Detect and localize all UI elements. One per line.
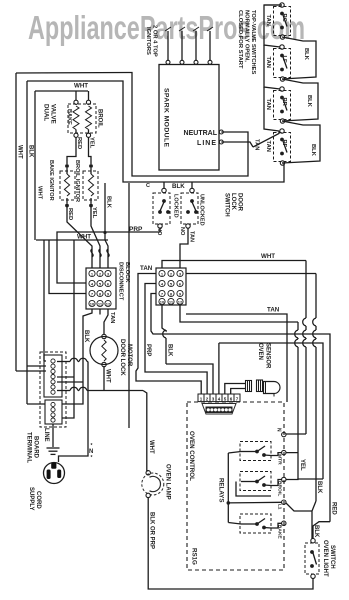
wire WHT long to right: [162, 261, 306, 269]
svg-text:NEUTRAL: NEUTRAL: [184, 130, 218, 137]
svg-text:UNLOCKED: UNLOCKED: [199, 194, 205, 226]
svg-text:NORMALLY OPEN,: NORMALLY OPEN,: [244, 10, 250, 62]
svg-text:LF: LF: [281, 56, 287, 64]
top-valve switch RR: [274, 91, 291, 120]
control board edge connector 1-7: [198, 394, 204, 402]
wire y334 to RED bus: [156, 334, 330, 522]
svg-text:TAN: TAN: [265, 15, 271, 26]
wire YEL from broil coil: [89, 138, 92, 165]
svg-text:RELAYS: RELAYS: [218, 478, 225, 503]
svg-text:TAN: TAN: [109, 312, 115, 323]
svg-text:MTR: MTR: [277, 454, 283, 465]
control plug with pins: [202, 404, 236, 415]
svg-text:2 OR 4 TOP: 2 OR 4 TOP: [152, 25, 158, 57]
ground symbol: [52, 397, 54, 446]
svg-text:BLK: BLK: [167, 344, 173, 357]
tan feed zigzag chain on left of switches: [221, 142, 253, 147]
svg-text:*: *: [91, 455, 93, 461]
dual valve (bake/broil coils): [68, 104, 96, 133]
svg-text:SENSOR: SENSOR: [265, 343, 271, 369]
wire connector row3 to bus: [151, 294, 156, 335]
wire WHT bus from top left: [16, 73, 248, 177]
left bus WHT: [15, 73, 17, 371]
left bus 3: [34, 91, 36, 240]
svg-text:RED: RED: [76, 137, 82, 149]
wire RED to light switch: [313, 522, 330, 539]
svg-text:SUPPLY: SUPPLY: [28, 487, 34, 510]
bake ignitor: [60, 171, 75, 200]
svg-text:C: C: [146, 183, 150, 189]
wire L1 to light switch: [286, 503, 312, 511]
svg-text:LOCK: LOCK: [230, 193, 236, 211]
svg-text:RS1G: RS1G: [191, 548, 198, 565]
feeds into terminal strip: [16, 370, 46, 372]
svg-text:SWITCH: SWITCH: [329, 545, 335, 569]
svg-text:WHT: WHT: [17, 145, 23, 159]
wire RED from bake coil: [67, 138, 76, 165]
wire PRP connector row2 to board plug 2: [145, 284, 207, 395]
wire WHT terminal board to oven lamp: [57, 390, 70, 392]
svg-text:OVEN: OVEN: [257, 343, 263, 360]
spark module U1: [159, 65, 219, 171]
svg-text:BLOCK: BLOCK: [124, 262, 130, 283]
svg-text:BAKE: BAKE: [277, 525, 283, 540]
svg-text:DISCONNECT: DISCONNECT: [118, 262, 124, 301]
oven control dashed enclosure: [187, 402, 284, 570]
svg-text:BLK: BLK: [106, 196, 112, 209]
svg-text:TOP-VALVE SWITCHES: TOP-VALVE SWITCHES: [250, 10, 256, 75]
wire to YEL: [180, 305, 298, 322]
svg-text:SPARK MODULE: SPARK MODULE: [163, 88, 170, 147]
wire connector row1 to board plug 1: [136, 274, 201, 395]
svg-text:12: 12: [106, 301, 111, 306]
svg-text:WHT: WHT: [148, 440, 154, 454]
svg-text:TERMINAL: TERMINAL: [26, 432, 32, 463]
svg-text:TAN: TAN: [189, 231, 195, 242]
svg-text:BLK: BLK: [83, 330, 89, 343]
wire into disconnect row3: [49, 240, 86, 294]
wire BLK from door lock line into disconnect block: [105, 183, 108, 268]
wire BLK disconnect to terminal board: [62, 309, 92, 404]
wire BLK connector col to board plug 3: [162, 305, 166, 331]
ignitor leads to spark module: [167, 31, 169, 61]
svg-text:10: 10: [90, 301, 95, 306]
svg-text:MOTOR: MOTOR: [126, 344, 132, 367]
sensor bulb: [264, 382, 281, 394]
svg-text:OVEN CONTROL: OVEN CONTROL: [188, 431, 195, 481]
wire y343 to V3: [218, 343, 220, 394]
squiggles on disconnect block feed wires: [91, 249, 93, 257]
wire PRP from locked contact: [57, 228, 160, 283]
svg-text:DUAL: DUAL: [43, 104, 50, 121]
wire WHT from motor: [103, 367, 105, 391]
wire BLK OR PRP from lamp: [148, 498, 313, 589]
wire V2 to light switch: [312, 501, 316, 539]
oven lamp: [142, 473, 164, 495]
wire BLK bus from switches to left: [27, 81, 284, 182]
top-valve switch RF: [274, 133, 291, 162]
wire L1 to relay bus: [228, 501, 281, 504]
svg-text:RED: RED: [331, 502, 337, 515]
svg-text:WHT: WHT: [77, 234, 91, 241]
svg-text:WHT: WHT: [37, 186, 43, 200]
svg-text:BROIL: BROIL: [97, 109, 103, 128]
svg-text:BLK: BLK: [28, 145, 34, 158]
svg-text:LINE: LINE: [197, 140, 217, 147]
door lock motor: [90, 337, 118, 365]
svg-text:BAKE IGNITOR: BAKE IGNITOR: [48, 160, 54, 201]
svg-text:10: 10: [160, 299, 165, 304]
terminal NEUTRAL: [219, 130, 223, 134]
top-valve switch RC: [274, 7, 291, 36]
svg-text:OVEN LIGHT: OVEN LIGHT: [322, 540, 328, 577]
svg-text:SWITCH: SWITCH: [224, 193, 230, 217]
svg-text:L1: L1: [277, 504, 283, 510]
svg-text:TAN: TAN: [140, 265, 153, 272]
wire YEL below broil ignitor: [91, 207, 100, 268]
supply cord plug: [44, 463, 65, 484]
wire TAN long: [186, 314, 287, 402]
svg-text:LOCKED: LOCKED: [173, 194, 179, 218]
wire BROIL terminal: [286, 478, 323, 481]
long vertical wire right of disconnect: [128, 183, 130, 428]
blk brackets joining switch bottoms on right: [282, 37, 316, 79]
svg-text:BAKE: BAKE: [66, 109, 72, 125]
svg-text:BLK OR PRP: BLK OR PRP: [149, 512, 155, 549]
wire N from terminal board: [57, 361, 70, 363]
relay R2 stub: [236, 482, 271, 497]
svg-text:BROIL IGNITOR: BROIL IGNITOR: [74, 160, 80, 202]
svg-text:IGNITORS: IGNITORS: [145, 27, 151, 55]
oven light switch: [305, 543, 319, 574]
oven control terminals on right edge: [282, 432, 286, 436]
svg-text:N: N: [276, 428, 282, 432]
svg-text:PRP: PRP: [145, 344, 151, 356]
relay R3: [240, 514, 271, 533]
relay common bus: [227, 453, 229, 523]
wire to V2: [186, 273, 316, 275]
relay R1: [240, 442, 271, 461]
svg-text:YEL: YEL: [89, 137, 95, 149]
svg-text:CLOSED FOR START: CLOSED FOR START: [237, 10, 243, 69]
left bus BLK: [26, 81, 28, 404]
svg-text:DOOR LOCK: DOOR LOCK: [119, 339, 125, 376]
svg-text:WHT: WHT: [261, 253, 275, 260]
svg-text:BROIL: BROIL: [277, 481, 283, 496]
svg-text:CORD: CORD: [35, 491, 41, 509]
svg-text:TAN: TAN: [267, 307, 280, 314]
terminal board: [40, 352, 66, 427]
svg-text:TAN: TAN: [265, 57, 271, 68]
svg-text:BLK: BLK: [313, 525, 319, 538]
svg-text:BLK: BLK: [172, 183, 185, 190]
relay R2: [240, 472, 271, 491]
svg-text:*: *: [91, 443, 93, 449]
taps strip to right verticals: [57, 376, 74, 378]
wire BLK to door lock contacts: [163, 182, 165, 189]
svg-text:BLK: BLK: [303, 48, 309, 61]
svg-text:OVEN LAMP: OVEN LAMP: [165, 464, 171, 500]
oven sensor wires: [225, 384, 246, 395]
wire WHT bus to terminal board: [62, 240, 74, 418]
wire dual valve feed: [35, 90, 88, 92]
svg-text:RED: RED: [67, 208, 73, 220]
svg-text:12: 12: [178, 299, 183, 304]
wire N terminal right: [286, 433, 306, 435]
svg-text:BLK: BLK: [306, 95, 312, 108]
svg-text:RC: RC: [281, 14, 287, 23]
svg-text:NO: NO: [179, 227, 185, 236]
svg-text:YEL: YEL: [299, 459, 305, 471]
wire TAN to door lock motor: [104, 309, 108, 334]
svg-text:BLK: BLK: [316, 481, 322, 494]
wire WHT bus mid: [36, 239, 108, 241]
svg-text:WHT: WHT: [74, 83, 88, 90]
svg-text:VALVE: VALVE: [50, 104, 57, 124]
svg-text:TAN: TAN: [265, 99, 271, 110]
svg-text:DOOR: DOOR: [237, 193, 243, 212]
svg-text:YEL: YEL: [91, 207, 97, 219]
wire TAN from unlocked contact to connector: [180, 228, 188, 268]
svg-text:RR: RR: [281, 98, 287, 107]
svg-text:BLK: BLK: [310, 144, 316, 157]
wire RED below bake ignitor: [67, 207, 92, 268]
door lock switch contacts: [153, 193, 170, 224]
wire MTR to YEL bus: [286, 453, 298, 480]
svg-text:BOARD: BOARD: [33, 436, 39, 459]
svg-text:TAN: TAN: [265, 141, 271, 152]
disconnect block: [86, 268, 116, 309]
svg-text:PRP: PRP: [129, 226, 143, 233]
oven control connector block: [156, 268, 186, 305]
top-valve switch LF: [274, 49, 291, 78]
svg-text:LINE: LINE: [43, 428, 49, 442]
broil ignitor: [83, 171, 98, 200]
svg-text:WHT: WHT: [105, 369, 111, 383]
svg-text:RF: RF: [281, 140, 287, 148]
terminal LINE: [219, 140, 223, 144]
